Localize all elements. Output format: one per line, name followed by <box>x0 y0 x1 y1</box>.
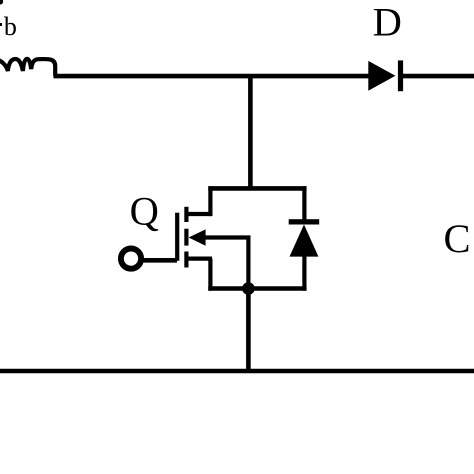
wire: MOSFET source drop <box>208 259 212 291</box>
svg-text:D: D <box>373 0 402 45</box>
svg-text:C: C <box>443 216 470 261</box>
wire: body-diode anode drop <box>302 255 306 291</box>
wire: top node to MOSFET drain riser <box>248 76 253 190</box>
wire: body-diode cathode riser <box>302 186 306 219</box>
wire: diode D cathode to right edge <box>402 74 474 79</box>
junction dot (source node) <box>242 282 255 295</box>
wire: block top bar <box>208 186 306 191</box>
wire: gate terminal to gate bar <box>143 258 178 263</box>
wire: bottom rail <box>0 369 474 374</box>
wire: source node to bottom rail <box>246 289 251 372</box>
diode D <box>368 60 403 91</box>
gate terminal <box>121 249 141 269</box>
wire: body connection to source node <box>204 238 248 289</box>
body diode of Q <box>289 219 320 256</box>
wire: inductor to diode D anode (top rail) <box>54 74 372 79</box>
svg-text:Q: Q <box>130 188 159 233</box>
wire: block bottom bar <box>208 286 306 291</box>
wire: MOSFET drain riser <box>208 186 212 216</box>
inductor Lb <box>0 59 55 76</box>
label Lb (cropped letter fragments + subscript b) <box>0 0 17 41</box>
transistor Q (N-channel MOSFET symbol) <box>175 207 212 268</box>
svg-text:b: b <box>4 12 17 41</box>
